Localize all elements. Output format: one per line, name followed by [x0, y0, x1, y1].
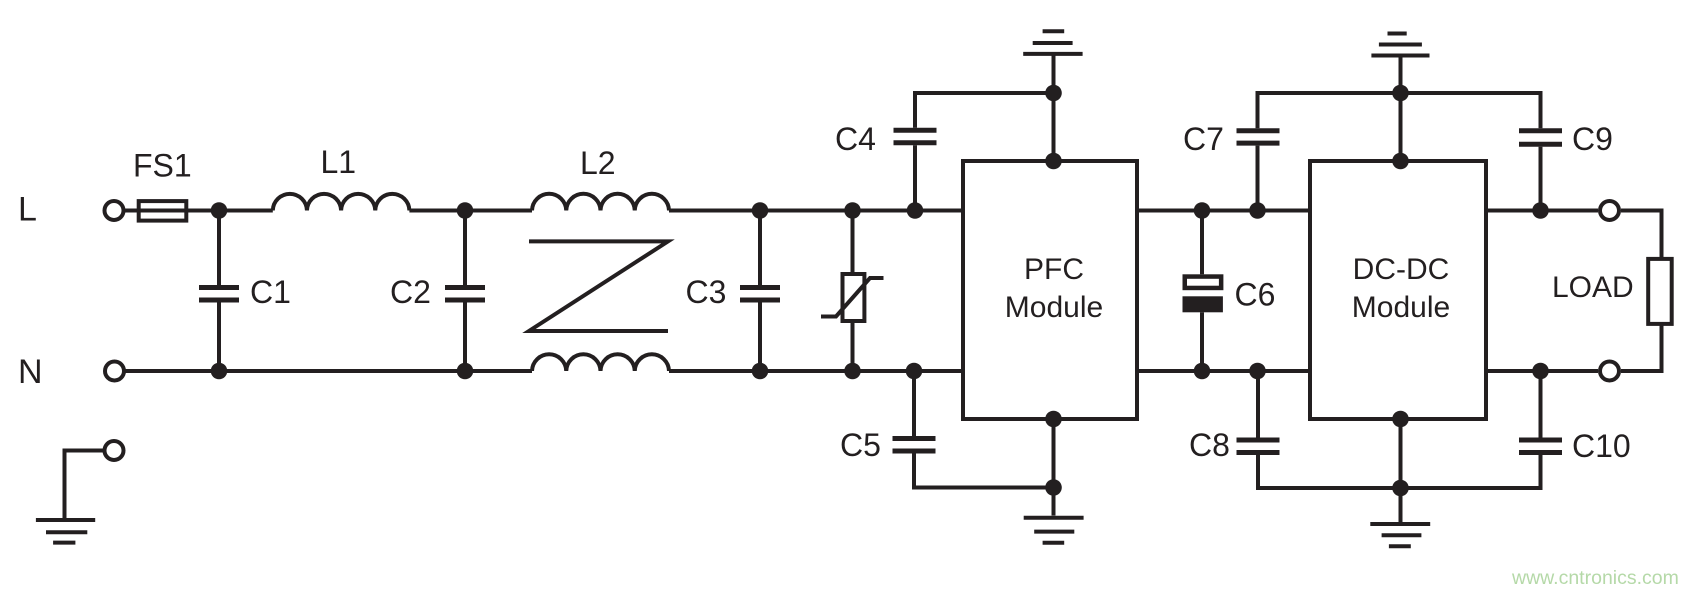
wire DC-DC bottom pin to ground: [1399, 421, 1403, 522]
DC-DC module box U2: [1310, 161, 1486, 419]
svg-text:C10: C10: [1572, 428, 1631, 464]
wire L line to PFC: [669, 209, 961, 213]
choke L2 bottom winding: [532, 354, 669, 371]
ground bottom 2: [1370, 524, 1430, 546]
wire load top: [1621, 211, 1662, 258]
wire L right rail: [1488, 209, 1598, 213]
svg-text:C3: C3: [686, 274, 727, 310]
wire load bottom: [1621, 324, 1662, 371]
svg-text:www.cntronics.com: www.cntronics.com: [1511, 567, 1679, 589]
ground bottom 1: [1024, 518, 1084, 543]
svg-text:C6: C6: [1235, 277, 1276, 313]
capacitor C8: [1237, 371, 1541, 488]
capacitor C9: [1519, 131, 1562, 211]
capacitor C10: [1519, 371, 1562, 453]
svg-text:LOAD: LOAD: [1552, 271, 1634, 304]
ground top 2: [1371, 34, 1429, 94]
wire N right rail: [1488, 369, 1598, 373]
svg-text:L2: L2: [580, 145, 616, 181]
wire N mid rail: [1139, 369, 1308, 373]
capacitor C7: [1237, 93, 1541, 211]
svg-text:Module: Module: [1005, 291, 1103, 324]
choke L2 core Z symbol: [529, 241, 668, 331]
wire N line to PFC: [669, 369, 961, 373]
node junction dots L rail: [211, 202, 1549, 219]
wire L1 to L2: [409, 209, 532, 213]
capacitor C3: [740, 211, 780, 372]
capacitor C1: [199, 211, 239, 372]
node output terminal top: [1600, 201, 1619, 220]
svg-text:C8: C8: [1189, 427, 1230, 463]
node junction dots ground rails: [1045, 85, 1409, 497]
svg-text:C7: C7: [1183, 121, 1224, 157]
svg-text:L1: L1: [321, 144, 357, 180]
svg-text:FS1: FS1: [133, 148, 192, 184]
choke L2 top winding: [532, 194, 669, 211]
node L terminal: [105, 201, 124, 220]
svg-text:L: L: [18, 191, 37, 229]
resistor LOAD: [1648, 259, 1672, 324]
inductor L1: [273, 194, 410, 211]
svg-text:PFC: PFC: [1024, 253, 1084, 286]
wire ground rail 1 to PFC top: [1052, 93, 1056, 159]
svg-text:C9: C9: [1572, 121, 1613, 157]
svg-text:N: N: [18, 353, 43, 391]
node junction dots N rail: [211, 363, 1549, 380]
svg-text:C5: C5: [840, 427, 881, 463]
ground top 1: [1023, 31, 1082, 93]
fuse FS1: [139, 201, 187, 221]
capacitor C5: [893, 371, 1054, 488]
svg-text:Module: Module: [1352, 291, 1450, 324]
wire ground rail 2 to DC-DC top: [1399, 93, 1403, 159]
capacitor C2: [445, 211, 485, 372]
capacitor C4: [894, 93, 1054, 211]
wire PE to ground: [65, 451, 104, 519]
ground earth left: [36, 520, 95, 543]
varistor RV1: [821, 211, 884, 372]
wire PFC bottom pin to ground: [1052, 421, 1056, 516]
ground terminal PE: [105, 441, 124, 460]
svg-text:DC-DC: DC-DC: [1353, 253, 1450, 286]
node output terminal bottom: [1600, 362, 1619, 381]
PFC module box U1: [963, 161, 1137, 419]
svg-text:C4: C4: [835, 121, 876, 157]
capacitor C6: [1183, 211, 1223, 372]
wire L mid rail: [1139, 209, 1308, 213]
node N terminal: [105, 362, 124, 381]
svg-text:C2: C2: [390, 274, 431, 310]
svg-text:C1: C1: [250, 274, 291, 310]
wire L input to fuse: [124, 209, 273, 213]
wire N line left: [124, 369, 533, 373]
